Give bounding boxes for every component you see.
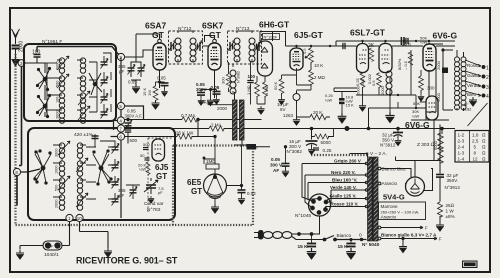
svg-text:420 ±1%: 420 ±1% — [74, 132, 94, 138]
svg-text:RICEVITORE G. 901– ST: RICEVITORE G. 901– ST — [76, 256, 178, 266]
transformer N102F label box — [263, 34, 280, 40]
svg-text:Z 303 Ω: Z 303 Ω — [417, 142, 435, 148]
6SL7 internals — [359, 50, 367, 59]
osc coil col2 row4 — [77, 195, 82, 210]
svg-text:0,7 MA.: 0,7 MA. — [181, 113, 197, 118]
svg-text:0 K: 0 K — [251, 145, 258, 150]
svg-text:6E5: 6E5 — [187, 178, 202, 187]
IF transformer N713 — [227, 31, 262, 64]
tap Grigio 260V — [302, 164, 367, 202]
svg-text:300: 300 — [427, 86, 435, 91]
coil can N°1951F — [24, 44, 116, 121]
shield left vertical — [14, 54, 16, 225]
svg-text:2 MA.: 2 MA. — [211, 123, 223, 128]
svg-text:2182: 2182 — [463, 107, 473, 112]
svg-text:1W: 1W — [147, 90, 152, 96]
svg-text:1 MΩ: 1 MΩ — [264, 85, 269, 95]
svg-text:±8%: ±8% — [446, 214, 455, 219]
AVC cap drop x128 — [127, 120, 129, 144]
node 3 — [18, 60, 25, 67]
svg-text:1022: 1022 — [465, 262, 475, 267]
tube 6E5 magic eye — [204, 174, 227, 199]
svg-text:6V: 6V — [280, 107, 286, 112]
svg-text:N°1045: N°1045 — [295, 213, 311, 219]
svg-text:1040/1: 1040/1 — [44, 252, 59, 258]
svg-text:Bleu 160 ’V.: Bleu 160 ’V. — [332, 177, 357, 182]
input capacitor 100 — [34, 54, 41, 56]
svg-text:6SK7: 6SK7 — [202, 21, 224, 31]
node 4 — [117, 117, 124, 124]
vertical from 6SL7 ground — [345, 108, 443, 134]
tube 5V4-G — [406, 177, 425, 196]
svg-text:5000: 5000 — [321, 140, 332, 145]
svg-text:2: 2 — [486, 75, 489, 81]
fuse F 1040/1 — [43, 241, 62, 250]
IF secondary loop coil — [230, 70, 236, 94]
svg-text:N°3912: N°3912 — [380, 143, 396, 148]
resistor 2MA — [209, 126, 224, 131]
bleeder 25ohm 1W — [437, 202, 442, 217]
svg-text:N°3082: N°3082 — [237, 71, 241, 83]
wire 6SK7 plate to IFT713 — [205, 36, 215, 43]
tube 6J5 — [290, 48, 303, 70]
node 7 — [117, 125, 124, 132]
RF coil col2 row2 — [80, 76, 85, 91]
svg-text:0.002: 0.002 — [367, 73, 372, 84]
twisted cord — [263, 232, 273, 239]
svg-text:AF: AF — [273, 168, 279, 173]
svg-text:10 K: 10 K — [314, 63, 323, 68]
oscillator coil can — [28, 128, 175, 220]
svg-text:Giallo 125 V.: Giallo 125 V. — [330, 193, 357, 198]
svg-text:N°3082: N°3082 — [287, 149, 303, 154]
svg-text:Verde 140 V.: Verde 140 V. — [330, 185, 357, 190]
resistor 25K 1W — [177, 134, 192, 139]
svg-text:15 K: 15 K — [346, 103, 355, 108]
svg-text:Arancio: Arancio — [382, 181, 398, 186]
svg-text:10: 10 — [77, 216, 83, 221]
band switch wafer A — [43, 77, 47, 81]
node8 stub — [21, 169, 41, 172]
svg-text:2000: 2000 — [380, 85, 385, 95]
node 2 — [117, 53, 124, 60]
svg-text:Ω: Ω — [482, 145, 486, 150]
svg-text:6H6-GT: 6H6-GT — [259, 20, 290, 30]
speaker field diagonal — [468, 100, 488, 126]
tube 6V6 lower — [426, 96, 438, 120]
tap Rosso 110V — [326, 207, 367, 210]
svg-text:500: 500 — [130, 138, 138, 143]
trimmer row1 — [101, 59, 109, 69]
node stubs left — [105, 106, 144, 137]
speaker ground arrow — [469, 97, 477, 106]
svg-text:1 W: 1 W — [446, 209, 455, 214]
wire 6SK7 cathode network — [214, 70, 216, 98]
osc coil row2 — [59, 161, 64, 176]
node 6 — [117, 133, 124, 140]
trimmer row4 — [101, 109, 109, 119]
svg-text:300: 300 — [221, 77, 226, 84]
lower can wiring — [53, 145, 62, 197]
osc coil col2 row1 — [77, 143, 82, 158]
svg-text:Ω: Ω — [482, 151, 486, 156]
tube 6SA7 — [153, 43, 166, 70]
osc coil col2 row2 — [77, 161, 82, 176]
wire node3 to coil can — [25, 62, 28, 64]
svg-text:0.05: 0.05 — [157, 76, 166, 81]
6H6 diode plates — [261, 48, 268, 53]
svg-text:100: 100 — [248, 74, 256, 79]
svg-text:0.02: 0.02 — [247, 191, 256, 196]
shield near transformer — [311, 154, 368, 156]
trimmer on AVC — [125, 120, 133, 130]
svg-text:8/32%: 8/32% — [397, 58, 402, 70]
svg-text:Bianco giallo 6,3 V= 2,7 A: Bianco giallo 6,3 V= 2,7 A — [381, 233, 437, 238]
shield right vertical — [252, 147, 254, 225]
osc coil row1 — [59, 143, 64, 158]
svg-text:pF: pF — [119, 193, 125, 198]
svg-text:N°3912: N°3912 — [445, 185, 461, 190]
svg-text:0: 0 — [359, 233, 362, 239]
wire 6H6 to 6J5 grid — [286, 46, 297, 48]
svg-text:1 MΩ: 1 MΩ — [246, 85, 251, 95]
ground in can — [148, 196, 154, 203]
svg-text:6V6-G: 6V6-G — [433, 31, 458, 41]
band switch left — [41, 166, 45, 170]
svg-text:500: 500 — [56, 81, 60, 87]
svg-text:¼W: ¼W — [412, 114, 419, 119]
RF coil col2 row4 — [80, 108, 85, 123]
wire 6SA7 plate to IFT712 — [136, 34, 160, 57]
svg-text:1263: 1263 — [283, 113, 294, 118]
svg-text:3: 3 — [486, 85, 489, 91]
svg-text:50K: 50K — [413, 101, 420, 106]
svg-text:2000: 2000 — [356, 85, 361, 95]
wire IFT712 to 6SK7 — [203, 45, 209, 47]
svg-text:0.5: 0.5 — [302, 48, 307, 54]
svg-text:50 K: 50 K — [273, 81, 278, 90]
svg-text:5 V – 2 A.: 5 V – 2 A. — [366, 151, 387, 157]
cap 500 — [125, 130, 131, 132]
svg-text:6J5: 6J5 — [155, 163, 169, 172]
svg-text:pF: pF — [158, 190, 163, 195]
svg-text:1: 1 — [486, 66, 489, 72]
svg-text:0.05: 0.05 — [128, 80, 137, 85]
wire 6SA7 cathode down — [159, 70, 161, 88]
band switch wafer C right — [93, 82, 97, 86]
B+ top bus — [330, 45, 455, 47]
tap Giallo 125V — [326, 199, 367, 203]
output transformer N2182 — [455, 50, 467, 111]
tap Nero 220V — [305, 175, 367, 208]
tube 6SL7 triode A — [357, 44, 369, 73]
RF coil col2 row3 — [80, 93, 85, 108]
svg-text:2000: 2000 — [55, 200, 59, 208]
svg-text:Nero 220 V.: Nero 220 V. — [331, 170, 356, 175]
svg-text:2-4: 2-4 — [458, 145, 465, 150]
svg-text:12: 12 — [473, 157, 479, 162]
svg-text:0.05: 0.05 — [271, 157, 280, 162]
resistor 10K box — [247, 144, 257, 150]
ground arrow below antenna — [12, 60, 19, 67]
osc coil col2 row3 — [77, 178, 82, 193]
svg-text:¼W: ¼W — [420, 40, 427, 45]
band switch right — [99, 166, 103, 170]
lower can interior — [34, 141, 119, 210]
voltage selector plug N1045 — [309, 194, 331, 234]
rectifier 5V4-G filament wires — [381, 169, 433, 191]
svg-text:15 K: 15 K — [298, 244, 309, 250]
resistor 0.7MA — [182, 117, 197, 122]
wire IFT713 to 6H6 — [258, 45, 262, 47]
svg-text:Ω: Ω — [482, 139, 486, 144]
node 1 — [66, 214, 73, 221]
svg-text:Arancio: Arancio — [381, 215, 397, 220]
svg-text:F: F — [439, 237, 442, 242]
svg-text:50: 50 — [140, 153, 145, 158]
svg-text:2000: 2000 — [436, 60, 441, 70]
mains voltage tap wires — [302, 162, 368, 209]
svg-text:pF: pF — [119, 69, 125, 74]
svg-text:Rosso 110 V.: Rosso 110 V. — [331, 201, 359, 206]
svg-text:6SA7: 6SA7 — [145, 21, 167, 31]
svg-text:5000: 5000 — [433, 140, 438, 150]
svg-text:– 0.5: – 0.5 — [403, 60, 408, 70]
cap square on OPT feed — [442, 68, 448, 74]
tube 6SL7 triode B — [379, 44, 392, 73]
switch — [323, 236, 366, 241]
RF coil row3 — [59, 93, 64, 108]
svg-text:20 K: 20 K — [313, 110, 322, 115]
svg-text:300 V: 300 V — [270, 163, 283, 168]
tube 6SK7 — [208, 43, 221, 70]
HT winding box Marrone — [379, 202, 426, 220]
B plus wiring — [415, 125, 440, 223]
B plus bus node7 — [125, 128, 210, 130]
svg-text:8: 8 — [474, 151, 477, 156]
tube 6H6 diode envelope — [258, 41, 273, 76]
svg-text:1-2: 1-2 — [458, 133, 465, 138]
svg-text:Bianco: Bianco — [337, 233, 352, 239]
filter cap 32uF 350V N3912 — [436, 175, 444, 178]
bus node6 — [125, 136, 178, 138]
padder cap 420 — [92, 134, 99, 141]
resistors 10K 15K boxes — [339, 98, 345, 101]
tube 6V6 upper — [423, 44, 436, 71]
svg-text:350V.: 350V. — [447, 178, 459, 183]
svg-text:25Ω: 25Ω — [446, 203, 455, 208]
can wiring — [57, 60, 62, 110]
svg-text:N° 5040: N° 5040 — [362, 242, 380, 248]
svg-text:3000: 3000 — [56, 111, 60, 119]
shield bottom — [16, 224, 254, 226]
RF coil col2 row1 — [80, 58, 85, 73]
top can interior — [45, 53, 111, 123]
svg-text:2-3: 2-3 — [458, 139, 465, 144]
svg-text:2 MΩ: 2 MΩ — [314, 75, 326, 80]
svg-text:500: 500 — [55, 185, 59, 191]
node 8 — [13, 168, 20, 175]
caps on bus — [406, 38, 408, 44]
svg-text:1000: 1000 — [55, 166, 59, 174]
svg-text:GT: GT — [152, 30, 165, 40]
AVC bus node4 — [125, 119, 183, 121]
svg-text:GT: GT — [191, 187, 202, 196]
svg-text:2,5: 2,5 — [472, 139, 479, 144]
antenna series capacitor — [12, 45, 20, 47]
svg-text:5: 5 — [474, 145, 477, 150]
power transformer N5040 — [368, 157, 379, 241]
svg-text:Ω: Ω — [482, 157, 486, 162]
svg-text:¼W: ¼W — [325, 98, 332, 103]
osc coil row4 — [59, 195, 64, 210]
svg-text:N°783: N°783 — [147, 207, 161, 213]
svg-text:N°102F: N°102F — [264, 34, 278, 39]
svg-text:1,6: 1,6 — [472, 133, 479, 138]
osc trimmers — [112, 144, 120, 154]
svg-text:25 K 1W: 25 K 1W — [176, 131, 194, 136]
svg-text:4: 4 — [486, 94, 489, 100]
band switch wafer B — [43, 104, 47, 108]
antenna — [12, 29, 20, 44]
svg-text:100: 100 — [56, 97, 60, 103]
svg-text:300V A.F.: 300V A.F. — [125, 114, 143, 119]
svg-text:2000: 2000 — [56, 62, 60, 70]
svg-text:Ω: Ω — [482, 133, 486, 138]
shield top horizontal — [173, 144, 247, 146]
junction dots top bus — [295, 40, 430, 109]
svg-text:Marrone: Marrone — [381, 204, 399, 209]
6J5 sub-box dashed — [148, 138, 172, 212]
svg-text:0.25: 0.25 — [323, 148, 332, 153]
svg-text:2000: 2000 — [217, 106, 228, 111]
tap Verde 140V — [326, 190, 367, 202]
6J5 top bus — [297, 45, 331, 47]
svg-text:5000: 5000 — [436, 92, 441, 102]
trimmer row3 — [101, 94, 109, 104]
shield divider vertical — [172, 146, 174, 226]
cap 0.02 6E5 — [238, 190, 246, 193]
RF coil row1 — [59, 58, 64, 73]
svg-text:1-4: 1-4 — [458, 157, 465, 162]
adjust arrows on coils — [57, 56, 69, 70]
tap Bleu 160V — [308, 183, 367, 200]
wires from nodes 1,10 — [70, 222, 80, 246]
svg-text:6J5-GT: 6J5-GT — [294, 30, 324, 40]
wires in can — [36, 57, 38, 63]
tube 6J5 osc — [152, 139, 165, 161]
RF coil row2 — [59, 76, 64, 91]
svg-text:N°1951 F: N°1951 F — [42, 39, 62, 45]
svg-text:500: 500 — [143, 142, 150, 147]
wire can to node2 — [37, 47, 119, 55]
svg-text:5V4-G: 5V4-G — [383, 193, 405, 202]
stamp 1022 — [462, 261, 478, 269]
svg-text:Rosso: Rosso — [467, 63, 480, 68]
osc coil row3 — [59, 178, 64, 193]
left vertical wires — [17, 67, 22, 206]
svg-text:Cond var: Cond var — [144, 201, 164, 207]
svg-text:F: F — [425, 226, 428, 231]
wire node2 to 6SA7 grid — [125, 50, 154, 57]
RF coil row4 — [59, 108, 64, 123]
mains plug — [254, 231, 325, 240]
svg-text:6SL7-GT: 6SL7-GT — [350, 28, 386, 38]
svg-text:Grigio 260 V: Grigio 260 V — [334, 158, 362, 163]
main vertical bus — [120, 57, 122, 218]
wire 6H6 top loop — [260, 32, 286, 47]
trimmer row2 — [101, 77, 109, 87]
node 5 — [117, 102, 124, 109]
svg-text:3000: 3000 — [55, 149, 59, 157]
svg-text:1-3: 1-3 — [458, 151, 465, 156]
IF transformer N712 — [168, 31, 203, 64]
node 10 — [76, 214, 83, 221]
tuning capacitor variable — [144, 178, 158, 194]
